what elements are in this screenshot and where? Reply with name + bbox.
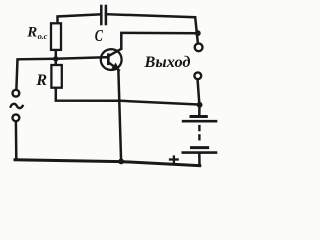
svg-text:C: C [95, 26, 104, 45]
svg-text:R: R [35, 72, 47, 89]
svg-text:R: R [26, 25, 37, 41]
svg-text:о.с: о.с [38, 31, 48, 41]
svg-text:Выход: Выход [143, 54, 190, 71]
